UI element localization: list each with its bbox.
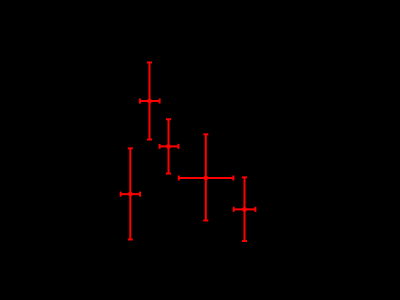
- errorbar point 1: [140, 63, 160, 140]
- errorbar point 2: [160, 119, 179, 173]
- errorbar point 3: [179, 134, 234, 220]
- errorbar point 5: [234, 177, 256, 241]
- errorbar point 4: [121, 148, 140, 239]
